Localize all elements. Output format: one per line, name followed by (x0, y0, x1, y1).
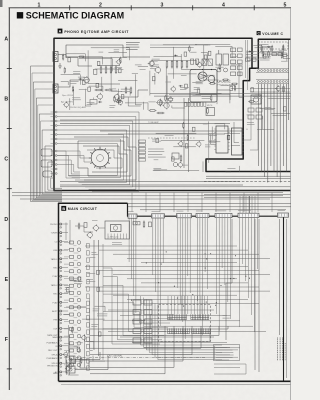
junction dot opamp (202, 69, 212, 70)
wire (195, 43, 230, 45)
wire (259, 57, 269, 59)
ruler top line (9, 7, 291, 9)
value label (261, 44, 270, 46)
value label (89, 257, 95, 259)
resistor R102 (96, 83, 99, 87)
svg-text:TAPE-2: TAPE-2 (51, 284, 59, 287)
wire opamp output (217, 90, 230, 100)
margin row letters A-F (4, 37, 8, 344)
ruler column numbers 1-5 (38, 2, 287, 8)
value label (194, 88, 200, 90)
resistor R119 (222, 79, 229, 81)
top bus above main edge (128, 204, 291, 210)
staircase wires from CN101 (57, 112, 139, 192)
wire (267, 54, 285, 56)
section label C square (257, 31, 261, 35)
svg-text:C: C (4, 157, 8, 163)
capacitor C121 (81, 357, 82, 364)
transistor Q110 (177, 162, 182, 169)
bus wire 2 (12, 195, 283, 197)
bus wire 1 (12, 192, 283, 194)
svg-text:3: 3 (161, 2, 164, 8)
volume vertical wires (259, 84, 287, 183)
value label (65, 287, 69, 289)
capacitor C115 (281, 52, 282, 59)
label UPC4570C (218, 80, 234, 87)
transistor Q101 (83, 76, 90, 84)
resistor R128 (284, 107, 287, 111)
value label (247, 114, 253, 116)
svg-text:PHONO EQ AMP: PHONO EQ AMP (70, 106, 87, 109)
wire loop around selector 2 (83, 146, 127, 172)
wire (208, 133, 210, 163)
svg-text:MAIN CIRCUIT: MAIN CIRCUIT (68, 207, 98, 211)
svg-text:PHONO: PHONO (50, 224, 58, 226)
svg-text:C.SRC wire: C.SRC wire (108, 236, 119, 238)
resistor R103 (83, 80, 86, 84)
value label (264, 107, 274, 109)
capacitor C104 (115, 66, 117, 75)
component ladder R121-R130 (231, 48, 243, 76)
relay driver rows RY202-RY206 (133, 300, 152, 343)
wire (271, 113, 290, 115)
value label (209, 134, 217, 136)
protector IC pins (108, 234, 127, 240)
wire (163, 44, 197, 46)
scan corner mark (0, 0, 3, 7)
value label (109, 106, 115, 108)
capacitor C102 (105, 66, 107, 75)
value label (74, 359, 81, 361)
value label (97, 314, 107, 316)
bus riser wires (132, 193, 272, 213)
right edge wire pair (289, 8, 291, 400)
svg-text:2: 2 (99, 2, 102, 8)
crossbar horizontal wires lower (108, 310, 266, 348)
wire (166, 76, 168, 107)
capacitor C202 (268, 51, 270, 58)
rotary selector SW101 (89, 147, 111, 169)
svg-text:PHONO IN: PHONO IN (47, 365, 58, 367)
transistor Q109 (196, 141, 201, 148)
transistor Q106 (156, 99, 163, 107)
dashed outline volume pcb (258, 42, 288, 49)
wire (246, 129, 248, 130)
bottom bus inside A (60, 182, 243, 186)
capacitor C101 (120, 57, 121, 64)
transistor Q105 (149, 60, 154, 67)
main vertical rails (94, 240, 103, 360)
value label (259, 43, 267, 45)
value label (150, 66, 158, 68)
label VR101 (62, 94, 74, 97)
main left edge pins (60, 223, 62, 376)
svg-text:UPC4570C: UPC4570C (218, 80, 231, 84)
value text row upper (150, 45, 208, 47)
resistor R137 (67, 288, 70, 292)
capacitor C101 (100, 66, 102, 75)
resistor R132 (78, 277, 81, 281)
wire (247, 50, 251, 61)
resistor R123 (172, 157, 175, 161)
electrolytic C117 (217, 68, 221, 72)
vertical note text (278, 338, 286, 361)
left outside wire loops (31, 66, 63, 202)
resistor R203 (272, 53, 277, 56)
title block square (17, 12, 23, 18)
wire (79, 59, 112, 72)
value label (180, 88, 189, 90)
value label (253, 58, 260, 60)
op-amp IC101 B (208, 76, 215, 83)
wire (239, 71, 241, 76)
function IC202 comb (191, 314, 209, 319)
electrolytic C118 (224, 68, 228, 72)
wire (153, 169, 199, 171)
wire volume left pair (246, 40, 248, 90)
resistor R204 (278, 53, 283, 56)
volume control circuit box outline (206, 39, 291, 171)
wire (61, 75, 81, 85)
value label (83, 77, 90, 79)
wire (221, 84, 235, 86)
transistor Q231 (86, 231, 92, 238)
resistor R129 (248, 101, 255, 103)
wire (91, 48, 130, 60)
wire (61, 81, 68, 85)
connector top labels (128, 211, 285, 212)
tall IC block IC102 (214, 126, 230, 153)
tone defeat switch S102 (172, 153, 179, 167)
wire from J102 right (58, 80, 83, 87)
value label (196, 82, 203, 84)
value label (70, 278, 79, 280)
svg-text:REC: REC (53, 294, 58, 296)
value label (78, 76, 85, 78)
wire (173, 47, 175, 79)
function switch dashed box (159, 305, 211, 342)
capacitor C103 (72, 86, 73, 93)
resistor R114 (184, 52, 187, 56)
transistor Q108 (178, 141, 183, 148)
value label (115, 67, 124, 69)
resistor R118 (230, 86, 233, 90)
wire (209, 121, 221, 141)
wire mid bus A (78, 58, 92, 67)
transistor Q115 (67, 363, 72, 370)
resistor R201 (246, 58, 251, 61)
wire (154, 56, 182, 58)
svg-text:PLAY: PLAY (53, 301, 59, 304)
section label B square (61, 206, 66, 211)
wire cluster protector (66, 220, 122, 245)
long bus wire pair mid (150, 93, 291, 96)
value label (121, 91, 130, 93)
svg-text:1: 1 (38, 2, 41, 8)
value label (192, 94, 201, 96)
resistor R115 (152, 77, 155, 81)
resistor R122 (192, 127, 195, 131)
value label (91, 324, 99, 326)
wire cap row feed (98, 66, 120, 85)
wire (199, 93, 222, 95)
wire (84, 342, 93, 349)
capacitor C107 (219, 63, 220, 70)
wire (90, 298, 93, 350)
wire (72, 89, 74, 105)
wire (154, 73, 156, 85)
wire (101, 77, 103, 91)
edge pin labels (51, 112, 54, 174)
transistor Q104 (167, 96, 172, 103)
nested wire loops around function box (141, 296, 239, 360)
capacitor C120 (72, 327, 73, 334)
diode D104 (179, 85, 183, 87)
capacitor C118 (271, 45, 272, 52)
resistor R131 (149, 110, 157, 112)
resistor R130 (282, 87, 285, 91)
ac inlet box (80, 360, 89, 368)
resistor R127 (251, 88, 254, 92)
capacitor C121 (180, 155, 182, 163)
left margin line (8, 8, 10, 390)
value label (154, 159, 159, 161)
wire (248, 65, 250, 67)
wires rising from CN206 (240, 196, 255, 213)
value label (76, 342, 83, 344)
wire (262, 116, 264, 129)
wire (142, 102, 144, 110)
svg-text:TONE AMP: TONE AMP (148, 121, 159, 124)
wire (168, 73, 197, 75)
protector sub-box outline (105, 221, 130, 239)
value label (109, 89, 118, 91)
capacitor C114 (183, 122, 184, 129)
wire (89, 86, 103, 92)
value label (87, 103, 95, 105)
value label (181, 75, 187, 77)
resistor R116 (208, 51, 211, 55)
value label (152, 139, 161, 141)
wire (257, 129, 274, 132)
coil L102 (223, 54, 229, 65)
wire (173, 146, 196, 148)
wire (82, 318, 105, 320)
value label (69, 280, 76, 282)
label tone defeat (148, 149, 166, 157)
value label (148, 101, 155, 103)
comb pin risers (168, 296, 208, 314)
wire (63, 313, 70, 315)
value label (227, 168, 235, 170)
wire (211, 135, 216, 145)
svg-text:B: B (62, 207, 65, 211)
volume switch contact row 2 (256, 79, 289, 83)
main left input labels (50, 224, 58, 374)
svg-text:B: B (4, 97, 8, 103)
value label (87, 280, 95, 282)
connector CN202 on main top edge (152, 214, 165, 218)
function IC203 comb (168, 328, 190, 333)
section label A square (58, 29, 63, 34)
volume cross wires (250, 88, 290, 93)
transistor Q103 (113, 93, 119, 100)
transistor Q114 (65, 365, 70, 372)
svg-text:PRE: PRE (53, 320, 58, 322)
speaker terminal block (66, 356, 75, 373)
transistor Q230 (92, 224, 98, 231)
resistor R109 (105, 89, 113, 91)
value label (69, 346, 79, 348)
capacitor C119 (70, 358, 71, 365)
diode D106 (248, 50, 252, 52)
transistor Q105 (154, 66, 160, 74)
capacitor C106 (118, 97, 119, 104)
resistor R101 (97, 62, 100, 66)
volume text rows (246, 52, 258, 57)
value label (267, 98, 273, 100)
wire (95, 306, 105, 311)
capacitor C110 (166, 60, 168, 69)
svg-text:F: F (5, 337, 8, 343)
wire (66, 54, 86, 62)
resistor R106 (88, 87, 91, 91)
wire phono eq out (120, 90, 148, 97)
capacitor C111 (171, 60, 173, 69)
diode D105 (267, 46, 271, 48)
wires below legend (214, 364, 246, 374)
wire (202, 161, 204, 172)
wire (108, 51, 127, 53)
wire (196, 94, 230, 103)
value label (260, 58, 270, 60)
transistor Q107 (170, 86, 175, 93)
value label (79, 89, 87, 91)
resistor R107 (94, 69, 97, 74)
value label (152, 59, 160, 61)
capacitor C201 (262, 51, 264, 58)
diode D103 (174, 54, 178, 56)
resistor R108 (95, 89, 103, 91)
wire (158, 102, 201, 104)
resistor R202 (252, 58, 257, 61)
svg-text:LINE: LINE (53, 250, 58, 252)
transistor Q111 (275, 85, 280, 92)
value label (153, 169, 161, 171)
wire (253, 45, 262, 51)
transistor Q106 (196, 62, 201, 69)
diode D101 (98, 101, 102, 103)
wire vertical pair down (184, 98, 189, 172)
svg-text:TAPE OUT: TAPE OUT (47, 334, 58, 337)
wire (95, 68, 117, 70)
aux input jack J102 (53, 84, 58, 93)
wire (84, 335, 86, 368)
wire (260, 108, 276, 110)
wire (255, 48, 271, 51)
wire (125, 103, 148, 110)
capacitor C110 (165, 95, 166, 102)
wire (66, 57, 103, 65)
value label (202, 96, 212, 98)
wire from J101 to Q101 (58, 55, 78, 58)
value label (132, 73, 138, 75)
svg-text:MUTE: MUTE (207, 105, 213, 107)
value text block R101-R106 (126, 43, 140, 50)
wire loop around selector 4 (87, 150, 122, 168)
dash-dot signal line (76, 357, 205, 359)
connector CN206 on main top edge (238, 213, 259, 217)
value label (91, 252, 97, 254)
resistor R113 (209, 83, 216, 85)
wire (211, 127, 213, 140)
value label (281, 60, 288, 62)
wire (82, 57, 127, 59)
section label B text (68, 207, 98, 211)
crossbar vertical wires (129, 218, 257, 339)
connector CN203 on main top edge (177, 214, 192, 218)
diode D102 (79, 78, 83, 80)
note text Apr-91 (61, 101, 74, 104)
wire (261, 53, 287, 61)
wire (231, 145, 240, 147)
value label (215, 66, 223, 68)
svg-text:TUNER: TUNER (51, 233, 58, 235)
value label (135, 64, 142, 66)
capacitor C102 (64, 67, 65, 74)
op-amp IC101 outline (190, 70, 217, 103)
capacitor C111 (160, 100, 161, 107)
fuse F201 (133, 222, 140, 225)
wire (135, 74, 141, 105)
wire (239, 63, 243, 97)
value label (204, 44, 210, 46)
label row bottom A (148, 121, 159, 124)
svg-text:SPK-A: SPK-A (51, 354, 58, 357)
wire (152, 61, 197, 65)
section label A text (64, 30, 129, 34)
resistor R126 (263, 54, 266, 58)
bus wires A lower (60, 120, 243, 134)
wire (260, 51, 284, 53)
transistor Q113 (63, 351, 68, 358)
motor box M201 (251, 95, 261, 104)
left connector CN102 (41, 149, 52, 177)
wire (239, 166, 241, 172)
transistor Q103 (116, 59, 121, 66)
value label (191, 93, 198, 95)
wire (255, 94, 261, 96)
wire (156, 132, 197, 134)
svg-text:REC: REC (53, 268, 58, 270)
wire (226, 171, 231, 173)
value label (279, 50, 287, 52)
capacitor C114 (186, 60, 188, 69)
title SCHEMATIC DIAGRAM (26, 11, 124, 21)
main component column 2 (caps) (74, 244, 90, 371)
phono input jack J101 (53, 52, 58, 62)
protector relay RY201 (111, 225, 122, 232)
bus wire 4 (60, 186, 291, 188)
wire (128, 97, 141, 106)
wire (149, 71, 151, 96)
component ladder right of selector (139, 140, 146, 161)
resistor R105 (115, 101, 122, 103)
bus wire 6 right (204, 195, 291, 198)
volume switch contact row 1 (256, 68, 289, 72)
wire (231, 64, 244, 66)
wire (111, 57, 122, 91)
